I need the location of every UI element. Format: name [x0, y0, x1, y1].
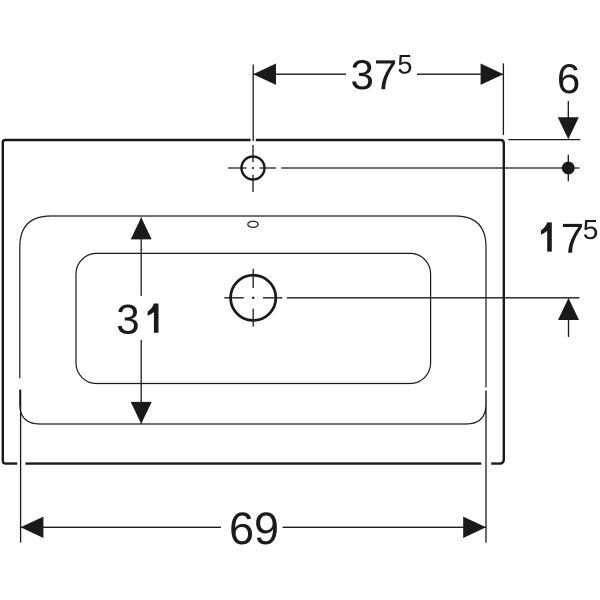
basin bottom rounded rect	[76, 253, 431, 383]
dim 6 arrow down	[558, 117, 579, 139]
dim 37.5 line	[253, 73, 503, 75]
basin rim rounded rect	[20, 216, 486, 424]
dim 69 extension line left	[20, 390, 22, 543]
dim 17.5 arrow up	[558, 298, 579, 320]
svg-text:7: 7	[561, 214, 584, 261]
tap hole center dot	[252, 167, 254, 169]
dim 37.5 extension line left	[252, 65, 254, 142]
svg-text:5: 5	[397, 49, 412, 79]
dim 6 arrow stem	[567, 101, 569, 118]
svg-text:69: 69	[229, 503, 279, 554]
tap hole crosshair vertical	[252, 145, 254, 192]
overflow slot	[248, 221, 258, 227]
dim 31 arrow down	[131, 402, 152, 424]
rim left edge gap for extension line	[18, 378, 21, 389]
dim 69 line	[21, 526, 486, 528]
tap hole circle	[242, 157, 265, 180]
rim right edge gap for extension line	[485, 387, 488, 390]
dim 31 line upper	[140, 217, 142, 295]
drain crosshair vertical	[252, 269, 254, 327]
dim 69 arrow left	[21, 517, 44, 538]
drain crosshair horizontal	[224, 297, 282, 299]
dim 6 dot terminator	[562, 162, 575, 175]
svg-text:5: 5	[583, 214, 599, 245]
dim 6 dot dash	[567, 155, 569, 181]
leader line from drain to right	[287, 297, 580, 299]
dim 69 arrow right	[463, 517, 486, 538]
dim 37.5 arrow left	[253, 64, 276, 85]
drain hole circle	[231, 275, 276, 320]
dim 31 arrow up	[131, 217, 152, 239]
dim 31 line lower	[140, 340, 142, 424]
bottom edge middle segment	[25, 462, 481, 464]
dim 69 extension line right	[485, 391, 487, 543]
top edge left part + left edge + bottom-left corner	[3, 140, 251, 464]
dim 37.5 extension line right	[502, 63, 504, 134]
svg-text:37: 37	[351, 51, 398, 98]
svg-text:3: 3	[116, 296, 139, 343]
washbasin outer edge	[3, 140, 504, 464]
svg-text:6: 6	[557, 55, 580, 102]
leader line from top edge to right	[508, 139, 580, 141]
dim 37.5 arrow right	[481, 64, 504, 85]
drain center dot	[252, 297, 254, 299]
top edge right part + right edge + bottom-right corner	[256, 140, 504, 464]
dim 17.5 arrow stem	[568, 320, 570, 337]
leader line from tap hole to right	[281, 167, 579, 169]
tap hole crosshair horizontal	[228, 167, 276, 169]
dim 17.5 label	[541, 222, 552, 251]
